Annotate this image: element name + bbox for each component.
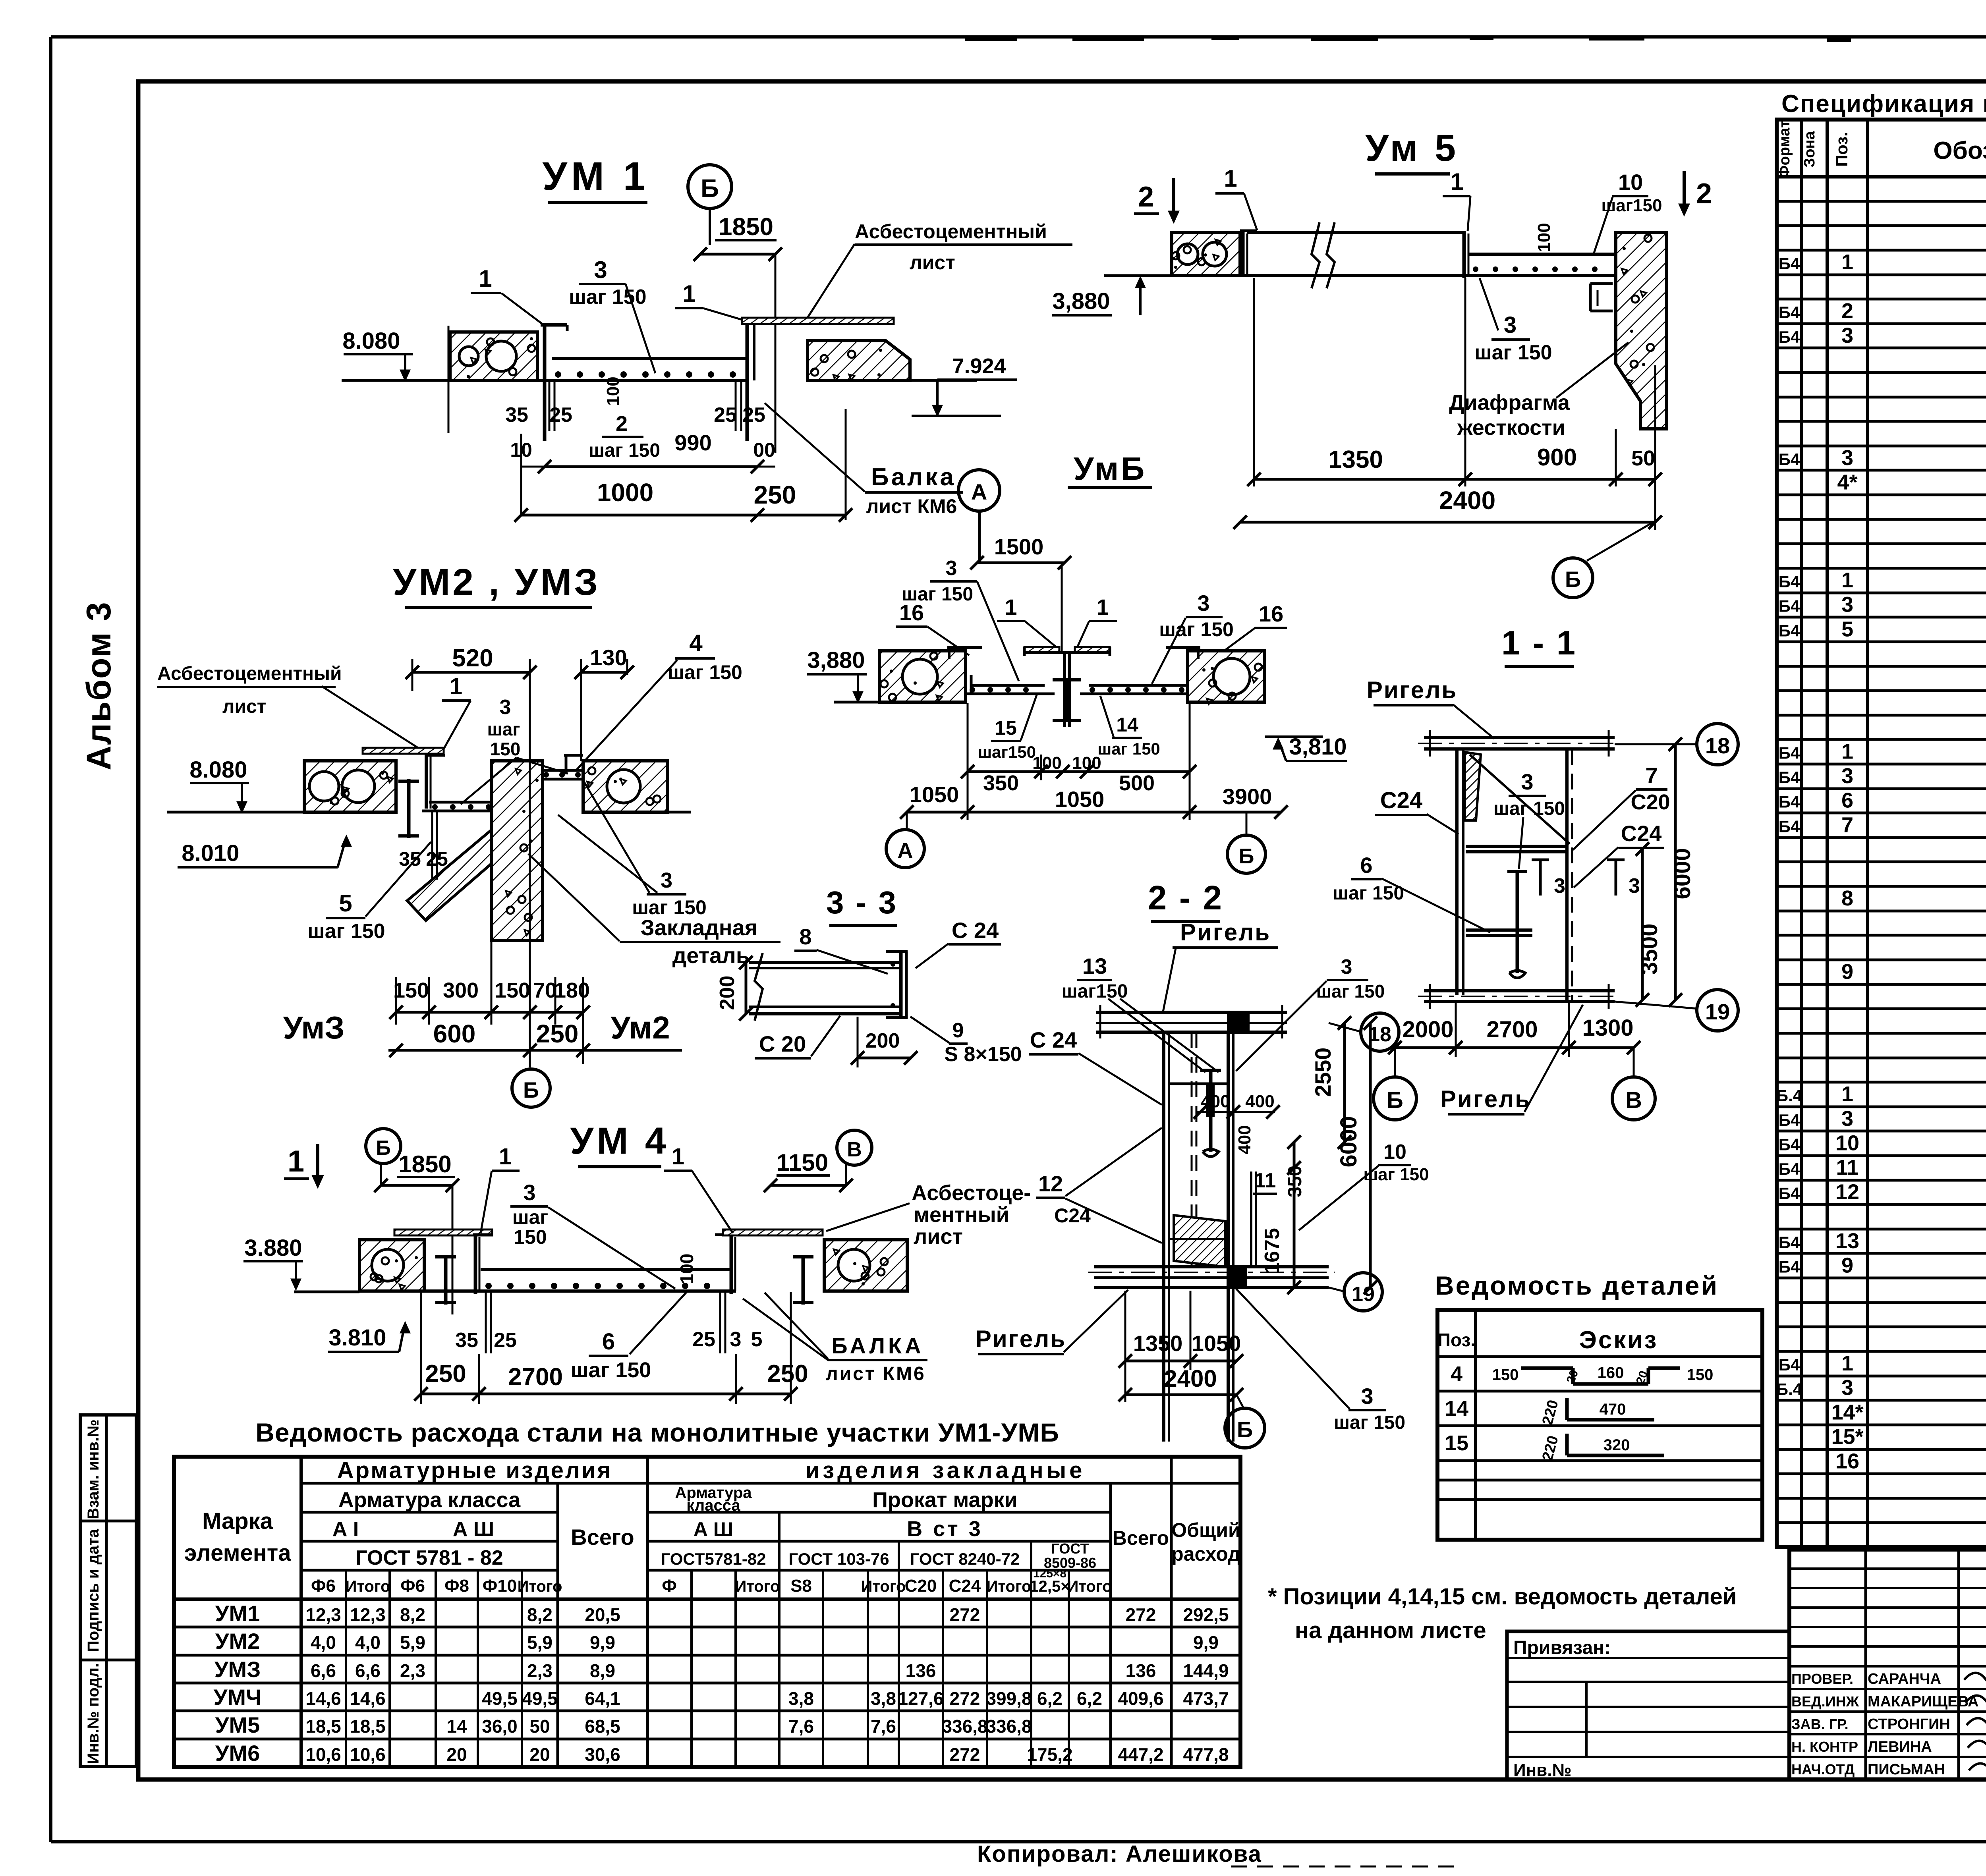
svg-text:1: 1	[1005, 594, 1017, 620]
svg-text:336,8: 336,8	[986, 1716, 1032, 1737]
svg-text:Ф8: Ф8	[444, 1576, 469, 1596]
svg-text:64,1: 64,1	[585, 1688, 620, 1709]
svg-text:ПИСЬМАН: ПИСЬМАН	[1868, 1761, 1945, 1778]
svg-text:Асбестоцементный: Асбестоцементный	[157, 663, 342, 684]
svg-text:Б: Б	[701, 174, 719, 203]
title block left grid	[1864, 1550, 1867, 1779]
svg-text:А Ш: А Ш	[694, 1518, 733, 1540]
svg-text:Ф6: Ф6	[400, 1576, 425, 1596]
svg-text:200: 200	[716, 976, 739, 1010]
svg-text:9: 9	[1841, 960, 1853, 984]
svg-text:Б4: Б4	[1779, 1233, 1800, 1252]
svg-text:1050: 1050	[910, 782, 959, 807]
hollow slab left	[450, 332, 537, 380]
svg-text:Всего: Всего	[1113, 1527, 1169, 1549]
mid bars 1-1	[1466, 845, 1567, 848]
svg-text:3: 3	[1841, 446, 1853, 470]
svg-text:8,9: 8,9	[590, 1660, 615, 1681]
svg-text:Прокат марки: Прокат марки	[872, 1488, 1018, 1512]
svg-text:3: 3	[1341, 955, 1352, 979]
svg-text:6,6: 6,6	[311, 1660, 336, 1681]
svg-text:19: 19	[1352, 1283, 1375, 1306]
svg-text:15: 15	[1445, 1431, 1468, 1455]
svg-text:шаг 150: шаг 150	[1333, 883, 1404, 904]
svg-text:3: 3	[1504, 312, 1517, 338]
svg-text:18,5: 18,5	[305, 1716, 341, 1737]
svg-text:399,8: 399,8	[986, 1688, 1032, 1709]
svg-text:19: 19	[1705, 999, 1730, 1024]
svg-text:3: 3	[1841, 1107, 1853, 1131]
axis circle V um4	[837, 1130, 872, 1165]
svg-text:473,7: 473,7	[1183, 1688, 1229, 1709]
svg-text:3: 3	[1841, 593, 1853, 617]
svg-text:350: 350	[1285, 1166, 1306, 1197]
svg-text:1: 1	[1841, 739, 1853, 763]
svg-text:00: 00	[753, 439, 775, 461]
attachment box	[1507, 1631, 1789, 1779]
svg-text:2: 2	[616, 412, 628, 436]
svg-text:Б4: Б4	[1779, 1184, 1800, 1203]
svg-text:8,2: 8,2	[527, 1604, 553, 1625]
svg-text:Б: Б	[1237, 1417, 1253, 1442]
slab um4	[481, 1268, 731, 1271]
axis circle A top um6	[958, 470, 1000, 511]
svg-text:477,8: 477,8	[1183, 1744, 1229, 1765]
left stamp boxes	[80, 1415, 136, 1766]
svg-text:Марка: Марка	[202, 1508, 273, 1534]
svg-text:250: 250	[425, 1360, 466, 1388]
svg-text:136: 136	[1126, 1660, 1156, 1681]
svg-text:Привязан:: Привязан:	[1513, 1637, 1611, 1658]
svg-text:30,6: 30,6	[585, 1744, 620, 1765]
svg-text:А: А	[971, 479, 987, 504]
svg-text:8: 8	[1841, 886, 1853, 910]
svg-text:3: 3	[523, 1180, 535, 1205]
axis circle B um5	[1587, 522, 1653, 561]
svg-text:Взам. инв.№: Взам. инв.№	[85, 1419, 102, 1519]
svg-text:9,9: 9,9	[1193, 1632, 1219, 1653]
svg-text:3: 3	[730, 1328, 742, 1351]
svg-text:шаг150: шаг150	[978, 743, 1036, 761]
gusset 1-1	[1465, 752, 1481, 820]
svg-text:Б.4: Б.4	[1776, 1086, 1802, 1105]
svg-text:шаг 150: шаг 150	[1097, 739, 1160, 758]
svg-text:50: 50	[1631, 446, 1655, 470]
svg-text:400: 400	[1235, 1125, 1254, 1154]
svg-text:18: 18	[1705, 733, 1730, 758]
svg-text:6000: 6000	[1336, 1116, 1362, 1167]
svg-text:шаг150: шаг150	[1062, 981, 1128, 1002]
svg-text:144,9: 144,9	[1183, 1660, 1229, 1681]
svg-text:А I: А I	[332, 1518, 359, 1541]
svg-text:С24: С24	[1380, 787, 1422, 813]
svg-text:Итого: Итого	[518, 1578, 562, 1595]
svg-text:Подпись и дата: Подпись и дата	[85, 1529, 102, 1652]
svg-text:2: 2	[1138, 181, 1154, 213]
left slab um6	[971, 684, 1045, 687]
svg-text:лист: лист	[910, 251, 955, 274]
steel table grid	[174, 1457, 1240, 1767]
svg-text:9,9: 9,9	[590, 1632, 615, 1653]
svg-text:ЗАВ. ГР.: ЗАВ. ГР.	[1791, 1716, 1849, 1732]
top beam 2-2	[1096, 1011, 1287, 1014]
svg-text:УМ 4: УМ 4	[570, 1120, 669, 1162]
svg-text:САРАНЧА: САРАНЧА	[1868, 1671, 1941, 1687]
svg-text:6,2: 6,2	[1037, 1688, 1063, 1709]
svg-text:3,880: 3,880	[807, 647, 865, 673]
I symbol 1-1	[1516, 872, 1519, 973]
svg-text:136: 136	[906, 1660, 936, 1681]
right channel um5	[1462, 231, 1466, 278]
svg-text:14,6: 14,6	[305, 1688, 341, 1709]
svg-text:470: 470	[1600, 1401, 1626, 1418]
svg-text:УМЗ: УМЗ	[214, 1657, 261, 1682]
svg-text:6,6: 6,6	[355, 1660, 381, 1681]
svg-text:Б4: Б4	[1779, 817, 1800, 836]
svg-text:20,5: 20,5	[585, 1604, 620, 1625]
svg-text:7,6: 7,6	[871, 1716, 896, 1737]
svg-text:150: 150	[495, 979, 530, 1002]
channel um23	[425, 753, 428, 809]
svg-text:7: 7	[1645, 763, 1658, 788]
monolithic slab	[552, 357, 746, 360]
left channel um5	[1241, 231, 1245, 276]
svg-text:127,6: 127,6	[898, 1688, 943, 1709]
svg-text:УМ2: УМ2	[215, 1629, 260, 1654]
svg-text:Б4: Б4	[1779, 793, 1800, 811]
svg-text:ГОСТ5781-82: ГОСТ5781-82	[661, 1550, 766, 1568]
svg-text:150: 150	[490, 739, 521, 759]
bottom beam 1-1	[1424, 989, 1615, 992]
svg-text:лист: лист	[222, 696, 266, 717]
svg-text:С 24: С 24	[1030, 1027, 1077, 1052]
svg-text:20: 20	[446, 1744, 467, 1765]
axis circles um6	[906, 812, 908, 828]
svg-text:12: 12	[1835, 1180, 1859, 1204]
svg-text:Формат: Формат	[1776, 120, 1793, 178]
svg-text:12,3: 12,3	[350, 1604, 386, 1625]
svg-text:1: 1	[1841, 568, 1853, 592]
svg-text:2550: 2550	[1310, 1048, 1335, 1097]
center T profile um6	[1024, 647, 1059, 652]
right channel um4	[730, 1235, 733, 1294]
I symbol 2-2	[1209, 1070, 1213, 1152]
svg-text:Обозначение: Обозначение	[1933, 137, 1986, 164]
svg-text:шаг 150: шаг 150	[1316, 981, 1385, 1002]
svg-text:3: 3	[1629, 874, 1640, 897]
svg-text:1300: 1300	[1582, 1015, 1633, 1041]
svg-text:11: 11	[1254, 1169, 1276, 1192]
svg-text:Б: Б	[1239, 844, 1254, 868]
svg-text:1: 1	[479, 265, 492, 292]
svg-text:15: 15	[995, 717, 1017, 739]
svg-text:12,3: 12,3	[305, 1604, 341, 1625]
svg-text:1: 1	[499, 1144, 512, 1170]
svg-text:изделия закладные: изделия закладные	[806, 1457, 1086, 1483]
svg-text:ПРОВЕР.: ПРОВЕР.	[1791, 1671, 1853, 1687]
axis circle 18 2-2	[1329, 1023, 1361, 1032]
svg-text:13: 13	[1835, 1229, 1859, 1253]
svg-text:350: 350	[983, 771, 1019, 795]
svg-text:4,0: 4,0	[355, 1632, 381, 1653]
svg-text:20: 20	[529, 1744, 550, 1765]
svg-text:* Позиции 4,14,15 см. ведомост: * Позиции 4,14,15 см. ведомость деталей	[1268, 1584, 1737, 1610]
svg-text:3: 3	[1841, 764, 1853, 788]
svg-text:250: 250	[767, 1360, 808, 1388]
left hollow block um6	[879, 651, 966, 702]
svg-text:ГОСТ 103-76: ГОСТ 103-76	[788, 1550, 889, 1568]
svg-text:Б4: Б4	[1779, 1111, 1800, 1129]
angle on right block um23	[564, 754, 583, 757]
svg-text:10,6: 10,6	[305, 1744, 341, 1765]
svg-text:Б4: Б4	[1779, 1258, 1800, 1276]
svg-text:1: 1	[1841, 1351, 1853, 1375]
svg-text:3 - 3: 3 - 3	[826, 885, 898, 920]
svg-text:3: 3	[661, 869, 672, 892]
svg-text:13: 13	[1082, 953, 1107, 979]
svg-text:14: 14	[1116, 714, 1138, 736]
svg-text:900: 900	[1537, 444, 1577, 471]
svg-text:272: 272	[950, 1688, 980, 1709]
svg-text:шаг 150: шаг 150	[1474, 341, 1552, 364]
svg-text:Б4: Б4	[1779, 1355, 1800, 1374]
svg-text:УмБ: УмБ	[1074, 451, 1147, 487]
right hollow block um23	[583, 761, 667, 812]
svg-text:4,0: 4,0	[311, 1632, 336, 1653]
right chord 1-1	[1565, 749, 1569, 1001]
svg-text:272: 272	[950, 1604, 980, 1625]
svg-text:шаг 150: шаг 150	[1334, 1412, 1405, 1433]
svg-text:S8: S8	[790, 1576, 812, 1596]
rebar anchors	[549, 380, 551, 431]
svg-text:272: 272	[950, 1744, 980, 1765]
svg-text:2400: 2400	[1164, 1365, 1217, 1392]
svg-text:25: 25	[714, 403, 737, 427]
axis circle 19 2-2	[1329, 1287, 1344, 1291]
I-beam right um4	[802, 1255, 805, 1305]
scan smudges top	[965, 35, 1017, 41]
top beam 1-1	[1424, 736, 1615, 739]
svg-text:УмЗ: УмЗ	[283, 1010, 344, 1045]
svg-text:8.080: 8.080	[189, 757, 247, 783]
break mark 3-3	[755, 953, 763, 1021]
svg-text:8.080: 8.080	[342, 328, 400, 354]
svg-text:Ведомость расхода стали на мон: Ведомость расхода стали на монолитные уч…	[255, 1418, 1059, 1447]
svg-text:Спецификация к монолитным учас: Спецификация к монолитным участкам УМ1÷ …	[1781, 90, 1986, 118]
svg-text:1: 1	[1841, 1082, 1853, 1106]
svg-text:С24: С24	[1621, 821, 1662, 846]
svg-text:500: 500	[1119, 771, 1155, 795]
svg-text:С20: С20	[905, 1576, 937, 1596]
svg-text:300: 300	[443, 979, 479, 1002]
svg-text:БАЛКА: БАЛКА	[831, 1333, 924, 1358]
svg-text:150: 150	[514, 1226, 547, 1248]
svg-text:409,6: 409,6	[1118, 1688, 1163, 1709]
svg-text:4*: 4*	[1837, 471, 1857, 494]
svg-text:3: 3	[1521, 769, 1533, 794]
svg-text:14,6: 14,6	[350, 1688, 386, 1709]
svg-text:Альбом 3: Альбом 3	[80, 601, 118, 770]
svg-text:12,5×: 12,5×	[1030, 1578, 1070, 1595]
svg-text:Итого: Итого	[735, 1578, 780, 1595]
svg-text:Б4: Б4	[1779, 254, 1800, 273]
svg-text:2,3: 2,3	[527, 1660, 553, 1681]
svg-text:3,8: 3,8	[788, 1688, 814, 1709]
svg-text:шаг 150: шаг 150	[569, 286, 646, 309]
svg-text:1: 1	[1841, 250, 1853, 274]
svg-text:6: 6	[602, 1329, 615, 1355]
svg-text:336,8: 336,8	[942, 1716, 987, 1737]
svg-text:1 - 1: 1 - 1	[1501, 624, 1577, 662]
steel angle left	[543, 325, 547, 441]
svg-text:4: 4	[689, 630, 703, 656]
svg-text:150: 150	[1492, 1366, 1519, 1384]
svg-text:16: 16	[899, 600, 924, 625]
svg-text:класса: класса	[686, 1497, 740, 1514]
svg-text:ЛЕВИНА: ЛЕВИНА	[1868, 1739, 1932, 1755]
svg-text:Асбестоцементный: Асбестоцементный	[855, 220, 1047, 243]
axis circle B 2-2	[1236, 1395, 1244, 1408]
svg-text:16: 16	[1259, 601, 1283, 626]
axis circle B um4	[366, 1129, 401, 1164]
svg-text:шаг 150: шаг 150	[589, 440, 660, 461]
svg-text:25: 25	[549, 403, 572, 427]
svg-text:Б4: Б4	[1779, 450, 1800, 469]
svg-text:25: 25	[494, 1329, 517, 1352]
svg-text:МАКАРИЩЕВА: МАКАРИЩЕВА	[1868, 1693, 1978, 1710]
svg-text:Поз.: Поз.	[1832, 132, 1851, 167]
svg-text:68,5: 68,5	[585, 1716, 620, 1737]
svg-text:5: 5	[339, 890, 352, 917]
svg-text:70: 70	[533, 979, 557, 1002]
svg-text:250: 250	[754, 481, 796, 509]
svg-text:10,6: 10,6	[350, 1744, 386, 1765]
beam bottom 3-3	[749, 1006, 901, 1008]
svg-text:Эскиз: Эскиз	[1579, 1326, 1658, 1354]
svg-text:НАЧ.ОТД: НАЧ.ОТД	[1791, 1761, 1855, 1778]
left hollow block um5	[1172, 233, 1240, 276]
svg-text:Всего: Всего	[571, 1525, 634, 1550]
svg-text:Б4: Б4	[1779, 572, 1800, 591]
svg-text:100: 100	[1032, 753, 1061, 773]
svg-text:25: 25	[692, 1328, 715, 1351]
svg-text:2400: 2400	[1439, 486, 1495, 515]
svg-text:УМ 1: УМ 1	[543, 154, 649, 199]
svg-text:3: 3	[1841, 1376, 1853, 1400]
break marks um5	[1312, 222, 1319, 288]
right hollow block um4	[824, 1240, 907, 1291]
svg-text:Б: Б	[376, 1137, 390, 1160]
specification table grid	[1777, 120, 1986, 1547]
svg-text:6,2: 6,2	[1077, 1688, 1102, 1709]
axis circles B V 1-1	[1394, 1048, 1396, 1077]
svg-text:5: 5	[751, 1328, 763, 1351]
svg-text:Б: Б	[1387, 1087, 1403, 1113]
svg-text:Инв.№ подл.: Инв.№ подл.	[85, 1663, 102, 1764]
svg-text:Ум 5: Ум 5	[1365, 127, 1459, 169]
svg-text:175,2: 175,2	[1027, 1744, 1072, 1765]
svg-text:1350: 1350	[1328, 446, 1383, 473]
svg-text:Б.4: Б.4	[1776, 1380, 1802, 1399]
outer thin border	[51, 35, 1986, 39]
svg-text:447,2: 447,2	[1118, 1744, 1163, 1765]
svg-text:14: 14	[1445, 1397, 1468, 1421]
column chords 2-2	[1162, 1032, 1165, 1442]
right channel 3-3	[899, 952, 903, 1019]
svg-text:3: 3	[500, 696, 511, 719]
svg-text:2000: 2000	[1402, 1017, 1453, 1042]
svg-text:5,9: 5,9	[527, 1632, 553, 1653]
svg-text:1350: 1350	[1133, 1331, 1183, 1356]
right slab um6	[1089, 684, 1188, 687]
svg-text:УМ5: УМ5	[215, 1712, 260, 1737]
left hollow block um4	[359, 1240, 424, 1291]
svg-text:150: 150	[1687, 1366, 1714, 1384]
svg-text:16: 16	[1835, 1449, 1859, 1473]
svg-text:А: А	[898, 839, 913, 863]
svg-text:1850: 1850	[398, 1151, 451, 1177]
svg-text:расход: расход	[1171, 1543, 1240, 1565]
svg-text:УМ2 , УМЗ: УМ2 , УМЗ	[393, 561, 600, 603]
svg-text:Н. КОНТР: Н. КОНТР	[1791, 1739, 1858, 1755]
svg-text:3: 3	[1197, 591, 1209, 616]
svg-text:ГОСТ 8240-72: ГОСТ 8240-72	[910, 1550, 1020, 1568]
svg-text:Б: Б	[1565, 567, 1581, 592]
svg-text:100: 100	[1534, 223, 1554, 252]
svg-text:Б4: Б4	[1779, 768, 1800, 787]
mid details 2-2	[1169, 1083, 1228, 1085]
angle left block um6	[947, 646, 982, 649]
svg-text:400: 400	[1245, 1092, 1274, 1111]
svg-text:990: 990	[674, 430, 711, 455]
svg-text:шаг 150: шаг 150	[1493, 798, 1565, 819]
svg-text:8: 8	[799, 924, 811, 949]
svg-text:Ум2: Ум2	[610, 1010, 670, 1045]
svg-text:Ригель: Ригель	[1440, 1086, 1531, 1112]
gusset patch 2-2	[1174, 1215, 1225, 1267]
dims um5	[1253, 278, 1255, 486]
svg-text:6: 6	[1360, 853, 1372, 878]
svg-text:14: 14	[446, 1716, 467, 1737]
svg-text:8.010: 8.010	[182, 840, 239, 866]
beam top 3-3	[749, 961, 901, 964]
svg-text:272: 272	[1126, 1604, 1156, 1625]
bracket um5	[1589, 284, 1592, 311]
svg-text:100: 100	[676, 1254, 697, 1284]
flag 3 marks 1-1	[1539, 860, 1542, 896]
svg-text:Диафрагма: Диафрагма	[1449, 391, 1570, 415]
svg-text:10: 10	[1835, 1131, 1859, 1155]
svg-text:125×8: 125×8	[1033, 1567, 1066, 1580]
svg-text:15*: 15*	[1831, 1425, 1863, 1449]
svg-text:1050: 1050	[1055, 787, 1105, 812]
svg-text:1150: 1150	[777, 1149, 828, 1176]
svg-text:35: 35	[455, 1329, 478, 1352]
svg-text:Итого: Итого	[346, 1578, 390, 1595]
svg-text:3,880: 3,880	[1052, 288, 1110, 314]
svg-text:1: 1	[672, 1144, 684, 1170]
diagonal band um23	[407, 830, 491, 921]
svg-text:С24: С24	[949, 1576, 981, 1596]
axis circle 19 (1-1)	[1615, 1002, 1698, 1009]
svg-text:7.924: 7.924	[952, 354, 1006, 378]
svg-text:14*: 14*	[1831, 1400, 1863, 1424]
svg-text:1: 1	[288, 1145, 304, 1178]
left channel um4	[474, 1235, 477, 1294]
svg-text:5: 5	[1841, 617, 1853, 641]
title block frame	[1777, 1545, 1986, 1549]
svg-text:9: 9	[1841, 1254, 1853, 1278]
